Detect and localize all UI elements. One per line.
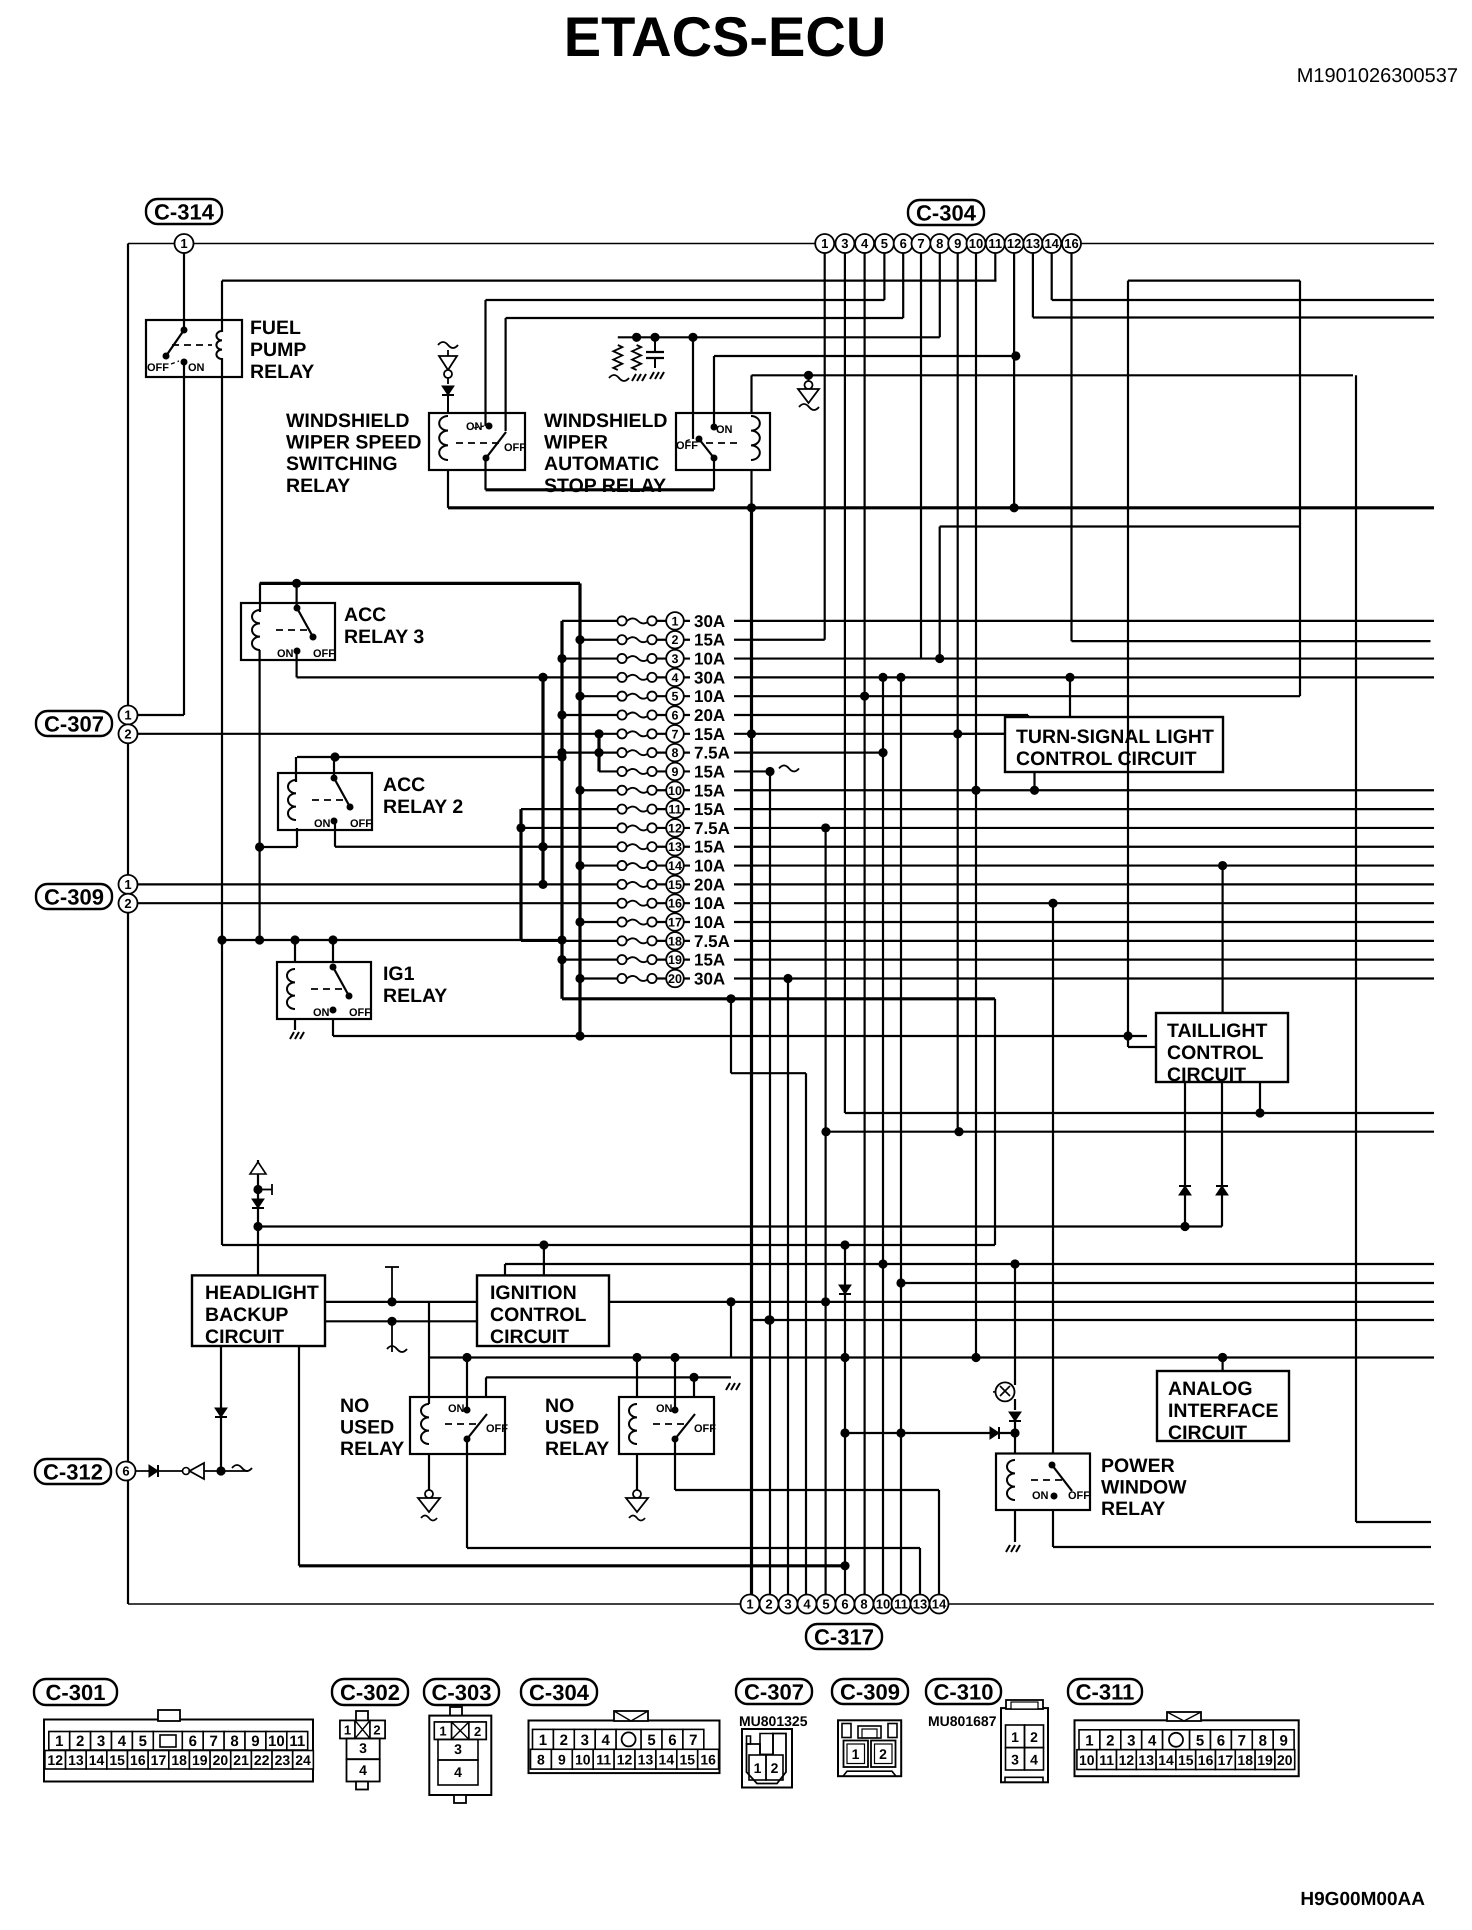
svg-text:H9G00M00AA: H9G00M00AA: [1300, 1889, 1425, 1910]
svg-text:ON: ON: [656, 1403, 673, 1415]
svg-text:1: 1: [124, 708, 131, 723]
svg-text:5: 5: [647, 1732, 655, 1749]
svg-text:OFF: OFF: [313, 648, 335, 660]
svg-text:1: 1: [852, 1746, 860, 1762]
svg-text:NO: NO: [545, 1395, 574, 1417]
svg-text:RELAY: RELAY: [545, 1438, 609, 1460]
svg-text:15: 15: [1178, 1752, 1194, 1768]
svg-text:6: 6: [668, 1732, 676, 1749]
svg-text:ANALOG: ANALOG: [1168, 1378, 1253, 1400]
svg-text:USED: USED: [545, 1417, 599, 1439]
svg-text:4: 4: [803, 1597, 811, 1612]
svg-text:3: 3: [672, 652, 679, 666]
svg-text:OFF: OFF: [147, 362, 169, 374]
svg-text:STOP RELAY: STOP RELAY: [544, 475, 666, 497]
svg-text:4: 4: [118, 1733, 127, 1750]
svg-text:WIPER: WIPER: [544, 432, 608, 454]
svg-text:16: 16: [1198, 1752, 1214, 1768]
svg-text:3: 3: [841, 236, 848, 251]
svg-text:18: 18: [668, 934, 682, 948]
svg-text:ACC: ACC: [383, 774, 425, 796]
svg-text:WINDSHIELD: WINDSHIELD: [286, 410, 410, 432]
svg-text:13: 13: [1026, 236, 1040, 251]
svg-text:PUMP: PUMP: [250, 339, 306, 361]
svg-text:C-301: C-301: [46, 1680, 106, 1705]
svg-text:8: 8: [537, 1752, 545, 1768]
svg-text:OFF: OFF: [676, 440, 698, 452]
svg-text:3: 3: [581, 1732, 589, 1749]
svg-text:15A: 15A: [694, 725, 725, 744]
svg-text:2: 2: [76, 1733, 84, 1750]
svg-text:TAILLIGHT: TAILLIGHT: [1167, 1020, 1267, 1042]
svg-text:ON: ON: [277, 648, 294, 660]
svg-text:7: 7: [1238, 1732, 1246, 1749]
svg-text:4: 4: [1030, 1752, 1038, 1768]
svg-text:16: 16: [668, 897, 682, 911]
svg-text:3: 3: [454, 1741, 462, 1757]
svg-text:ON: ON: [314, 818, 331, 830]
svg-text:RELAY: RELAY: [250, 361, 314, 383]
svg-text:C-307: C-307: [744, 1679, 804, 1704]
svg-text:CIRCUIT: CIRCUIT: [205, 1326, 284, 1348]
svg-text:9: 9: [954, 236, 961, 251]
svg-text:14: 14: [932, 1597, 947, 1612]
svg-text:19: 19: [668, 953, 682, 967]
svg-text:11: 11: [894, 1597, 908, 1612]
svg-text:ACC: ACC: [344, 604, 386, 626]
svg-text:18: 18: [171, 1752, 187, 1768]
svg-text:C-310: C-310: [934, 1679, 994, 1704]
svg-text:22: 22: [254, 1752, 270, 1768]
svg-text:13: 13: [638, 1752, 654, 1768]
svg-text:7: 7: [917, 236, 924, 251]
svg-text:10A: 10A: [694, 687, 725, 706]
svg-text:C-317: C-317: [814, 1624, 874, 1649]
svg-text:19: 19: [192, 1752, 208, 1768]
svg-text:10A: 10A: [694, 650, 725, 669]
svg-text:CIRCUIT: CIRCUIT: [490, 1326, 569, 1348]
svg-text:NO: NO: [340, 1395, 369, 1417]
svg-text:2: 2: [560, 1732, 568, 1749]
svg-text:RELAY: RELAY: [383, 985, 447, 1007]
svg-text:17: 17: [1218, 1752, 1234, 1768]
svg-text:24: 24: [295, 1752, 311, 1768]
svg-text:3: 3: [1127, 1732, 1135, 1749]
svg-text:ETACS-ECU: ETACS-ECU: [564, 5, 887, 68]
svg-text:10: 10: [876, 1597, 890, 1612]
svg-text:C-309: C-309: [44, 884, 104, 909]
svg-text:10: 10: [668, 784, 682, 798]
svg-text:15: 15: [679, 1752, 695, 1768]
svg-text:9: 9: [672, 765, 679, 779]
svg-text:9: 9: [251, 1733, 259, 1750]
svg-text:15A: 15A: [694, 781, 725, 800]
svg-text:7.5A: 7.5A: [694, 744, 730, 763]
svg-text:2: 2: [474, 1724, 481, 1739]
svg-text:MU801325: MU801325: [739, 1713, 808, 1729]
svg-text:WINDSHIELD: WINDSHIELD: [544, 410, 668, 432]
svg-text:15: 15: [668, 878, 682, 892]
svg-text:1: 1: [672, 614, 679, 628]
svg-text:C-311: C-311: [1076, 1679, 1135, 1704]
svg-text:WIPER SPEED: WIPER SPEED: [286, 432, 421, 454]
svg-text:20A: 20A: [694, 875, 725, 894]
svg-text:FUEL: FUEL: [250, 317, 301, 339]
svg-text:ON: ON: [448, 1403, 465, 1415]
svg-text:6: 6: [900, 236, 907, 251]
svg-text:ON: ON: [466, 421, 483, 433]
svg-text:5: 5: [881, 236, 888, 251]
svg-text:16: 16: [700, 1752, 716, 1768]
svg-text:C-304: C-304: [529, 1680, 590, 1705]
svg-text:WINDOW: WINDOW: [1101, 1477, 1187, 1499]
svg-text:11: 11: [596, 1752, 611, 1768]
svg-text:1: 1: [439, 1724, 446, 1739]
svg-text:1: 1: [746, 1597, 753, 1612]
svg-text:2: 2: [1030, 1729, 1038, 1745]
svg-text:C-309: C-309: [840, 1679, 900, 1704]
svg-text:5: 5: [672, 690, 679, 704]
svg-text:C-304: C-304: [916, 200, 977, 225]
svg-text:12: 12: [1007, 236, 1021, 251]
svg-text:6: 6: [189, 1733, 197, 1750]
svg-text:4: 4: [672, 671, 679, 685]
svg-text:15A: 15A: [694, 762, 725, 781]
svg-text:1: 1: [1011, 1729, 1019, 1745]
svg-text:ON: ON: [716, 424, 733, 436]
svg-text:12: 12: [617, 1752, 633, 1768]
svg-text:4: 4: [454, 1764, 462, 1780]
svg-text:10A: 10A: [694, 857, 725, 876]
svg-text:13: 13: [68, 1752, 84, 1768]
svg-text:10A: 10A: [694, 913, 725, 932]
svg-text:RELAY 2: RELAY 2: [383, 796, 463, 818]
svg-text:10: 10: [969, 236, 983, 251]
svg-text:7: 7: [209, 1733, 217, 1750]
svg-text:1: 1: [344, 1722, 351, 1737]
svg-text:CIRCUIT: CIRCUIT: [1168, 1422, 1247, 1444]
svg-text:2: 2: [879, 1746, 887, 1762]
svg-text:HEADLIGHT: HEADLIGHT: [205, 1282, 319, 1304]
svg-text:30A: 30A: [694, 612, 725, 631]
svg-text:11: 11: [988, 236, 1002, 251]
svg-text:12: 12: [1119, 1752, 1135, 1768]
svg-text:ON: ON: [188, 362, 205, 374]
svg-text:8: 8: [230, 1733, 238, 1750]
svg-text:15A: 15A: [694, 800, 725, 819]
svg-text:POWER: POWER: [1101, 1455, 1175, 1477]
svg-text:OFF: OFF: [1068, 1490, 1090, 1502]
svg-text:3: 3: [359, 1740, 367, 1756]
svg-text:AUTOMATIC: AUTOMATIC: [544, 453, 659, 475]
svg-text:IG1: IG1: [383, 963, 415, 985]
svg-text:10: 10: [1079, 1752, 1095, 1768]
svg-text:C-302: C-302: [340, 1680, 400, 1705]
svg-text:7: 7: [672, 727, 679, 741]
svg-text:IGNITION: IGNITION: [490, 1282, 577, 1304]
svg-text:1: 1: [55, 1733, 63, 1750]
svg-text:3: 3: [784, 1597, 791, 1612]
svg-text:2: 2: [124, 727, 131, 742]
svg-text:18: 18: [1237, 1752, 1253, 1768]
svg-text:20: 20: [1277, 1752, 1293, 1768]
svg-text:OFF: OFF: [486, 1423, 508, 1435]
svg-text:11: 11: [289, 1733, 305, 1750]
svg-text:14: 14: [1044, 236, 1059, 251]
svg-text:16: 16: [1064, 236, 1078, 251]
svg-text:6: 6: [841, 1597, 848, 1612]
svg-text:4: 4: [601, 1732, 610, 1749]
svg-text:4: 4: [861, 236, 869, 251]
svg-text:2: 2: [124, 896, 131, 911]
svg-text:20: 20: [213, 1752, 229, 1768]
svg-text:15A: 15A: [694, 838, 725, 857]
svg-text:6: 6: [672, 709, 679, 723]
svg-text:11: 11: [1099, 1752, 1114, 1768]
svg-text:20: 20: [668, 972, 682, 986]
svg-text:10: 10: [268, 1733, 285, 1750]
svg-text:BACKUP: BACKUP: [205, 1304, 288, 1326]
svg-text:16: 16: [130, 1752, 146, 1768]
svg-text:MU801687: MU801687: [928, 1713, 997, 1729]
svg-text:USED: USED: [340, 1417, 394, 1439]
svg-text:2: 2: [1106, 1732, 1114, 1749]
svg-text:4: 4: [359, 1762, 367, 1778]
svg-text:6: 6: [122, 1464, 129, 1479]
svg-text:1: 1: [754, 1760, 762, 1776]
svg-text:19: 19: [1257, 1752, 1273, 1768]
svg-text:2: 2: [672, 633, 679, 647]
svg-text:15: 15: [109, 1752, 125, 1768]
svg-text:30A: 30A: [694, 969, 725, 988]
svg-text:C-314: C-314: [154, 199, 215, 224]
svg-text:1: 1: [180, 236, 187, 251]
svg-text:OFF: OFF: [350, 818, 372, 830]
svg-text:17: 17: [668, 916, 682, 930]
svg-text:23: 23: [275, 1752, 291, 1768]
svg-text:C-303: C-303: [432, 1680, 492, 1705]
svg-text:13: 13: [913, 1597, 927, 1612]
svg-text:13: 13: [668, 840, 682, 854]
svg-text:8: 8: [936, 236, 943, 251]
svg-text:10A: 10A: [694, 894, 725, 913]
svg-text:6: 6: [1217, 1732, 1225, 1749]
svg-text:12: 12: [668, 821, 682, 835]
svg-text:11: 11: [668, 803, 681, 817]
svg-text:5: 5: [1196, 1732, 1204, 1749]
svg-text:17: 17: [151, 1752, 167, 1768]
svg-text:RELAY 3: RELAY 3: [344, 626, 424, 648]
svg-text:OFF: OFF: [349, 1007, 371, 1019]
svg-text:5: 5: [139, 1733, 147, 1750]
svg-text:CIRCUIT: CIRCUIT: [1167, 1064, 1246, 1086]
svg-text:7.5A: 7.5A: [694, 819, 730, 838]
svg-text:30A: 30A: [694, 668, 725, 687]
svg-text:1: 1: [821, 236, 828, 251]
svg-text:5: 5: [822, 1597, 829, 1612]
svg-text:12: 12: [47, 1752, 63, 1768]
svg-text:7: 7: [689, 1732, 697, 1749]
svg-text:1: 1: [124, 877, 131, 892]
svg-text:14: 14: [89, 1752, 105, 1768]
svg-text:RELAY: RELAY: [286, 475, 350, 497]
svg-text:INTERFACE: INTERFACE: [1168, 1400, 1279, 1422]
svg-text:3: 3: [97, 1733, 105, 1750]
svg-text:CONTROL CIRCUIT: CONTROL CIRCUIT: [1016, 748, 1197, 770]
svg-text:9: 9: [558, 1752, 566, 1768]
svg-text:10: 10: [575, 1752, 591, 1768]
svg-text:2: 2: [373, 1723, 380, 1738]
svg-text:3: 3: [1011, 1752, 1019, 1768]
svg-text:8: 8: [672, 746, 679, 760]
svg-text:M1901026300537: M1901026300537: [1297, 65, 1458, 87]
svg-text:2: 2: [765, 1597, 772, 1612]
svg-text:14: 14: [659, 1752, 675, 1768]
svg-text:C-307: C-307: [44, 711, 104, 736]
svg-text:7.5A: 7.5A: [694, 932, 730, 951]
svg-text:OFF: OFF: [504, 442, 526, 454]
svg-text:C-312: C-312: [43, 1459, 103, 1484]
svg-text:SWITCHING: SWITCHING: [286, 453, 398, 475]
svg-text:21: 21: [233, 1752, 249, 1768]
svg-text:CONTROL: CONTROL: [490, 1304, 586, 1326]
svg-text:13: 13: [1138, 1752, 1154, 1768]
svg-text:15A: 15A: [694, 951, 725, 970]
svg-text:RELAY: RELAY: [340, 1438, 404, 1460]
svg-text:9: 9: [1279, 1732, 1287, 1749]
svg-text:14: 14: [668, 859, 682, 873]
svg-text:ON: ON: [313, 1007, 330, 1019]
svg-text:CONTROL: CONTROL: [1167, 1042, 1263, 1064]
svg-text:20A: 20A: [694, 706, 725, 725]
svg-text:ON: ON: [1032, 1490, 1049, 1502]
svg-text:15A: 15A: [694, 631, 725, 650]
svg-text:1: 1: [539, 1732, 547, 1749]
svg-text:TURN-SIGNAL LIGHT: TURN-SIGNAL LIGHT: [1016, 726, 1214, 748]
svg-text:2: 2: [771, 1760, 779, 1776]
svg-text:8: 8: [860, 1597, 867, 1612]
svg-text:4: 4: [1148, 1732, 1157, 1749]
svg-text:14: 14: [1158, 1752, 1174, 1768]
svg-text:OFF: OFF: [694, 1423, 716, 1435]
svg-text:8: 8: [1259, 1732, 1267, 1749]
svg-text:1: 1: [1085, 1732, 1093, 1749]
svg-text:RELAY: RELAY: [1101, 1498, 1165, 1520]
